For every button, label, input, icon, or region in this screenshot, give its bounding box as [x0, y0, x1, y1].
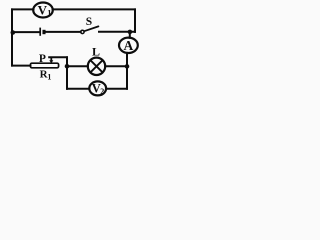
svg-text:V: V: [38, 2, 48, 17]
svg-text:L: L: [92, 45, 100, 59]
svg-text:1: 1: [47, 8, 51, 18]
svg-text:S: S: [86, 16, 92, 28]
svg-text:P: P: [39, 53, 46, 65]
svg-text:2: 2: [100, 87, 104, 96]
svg-text:1: 1: [47, 72, 51, 81]
svg-text:A: A: [124, 38, 134, 53]
